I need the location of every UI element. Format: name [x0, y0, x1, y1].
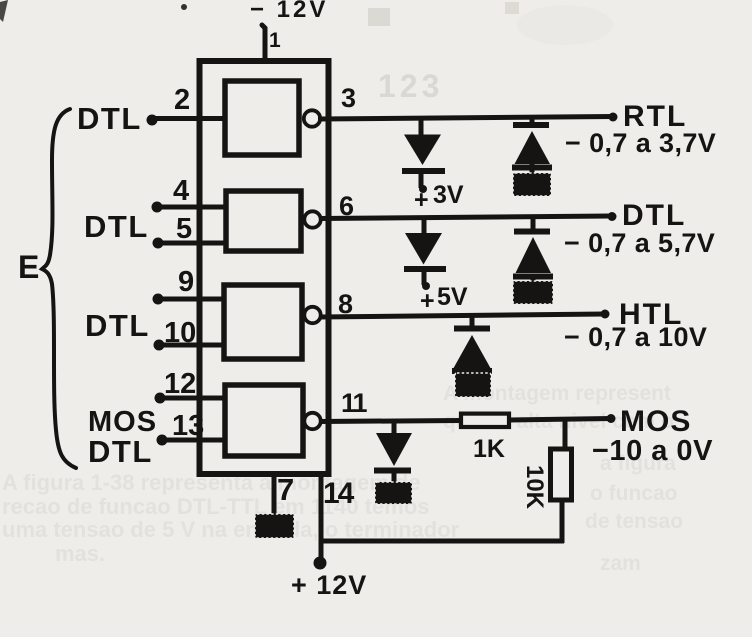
pin 4 input dot	[152, 202, 163, 213]
zener Z1 wire stub	[530, 118, 535, 127]
svg-text:− 0,7 a 3,7V: − 0,7 a 3,7V	[565, 128, 716, 158]
wire 10K bottom	[560, 500, 565, 543]
gate 4	[225, 385, 303, 456]
resistor R1 1K	[461, 414, 509, 427]
svg-text:DTL: DTL	[84, 209, 149, 244]
wire 10K top	[563, 420, 568, 451]
gate 4 output bubble	[304, 413, 320, 429]
pin 6 output wire (DTL line)	[319, 216, 611, 219]
svg-text:+: +	[420, 287, 435, 315]
diode D2 (to +5V)	[405, 233, 442, 265]
pin 11 output wire (MOS line left)	[319, 421, 461, 422]
svg-text:10K: 10K	[521, 465, 548, 510]
svg-text:o funcao: o funcao	[590, 482, 678, 505]
svg-text:7: 7	[277, 472, 294, 507]
zener Z1 (to ground)	[513, 122, 549, 128]
svg-text:5: 5	[176, 213, 192, 245]
gate 2	[226, 191, 301, 251]
pin 10 wire	[159, 343, 226, 348]
pin 12 input dot	[155, 393, 166, 404]
zener Z2 (to ground)	[514, 229, 550, 235]
pin 1 wire	[262, 25, 265, 58]
gate 1 output bubble	[304, 110, 320, 126]
svg-text:123: 123	[378, 68, 443, 104]
wire +12V rail	[319, 539, 564, 544]
svg-text:2: 2	[174, 84, 190, 116]
gate 3 output bubble	[304, 307, 320, 323]
node dot +12V	[314, 557, 327, 570]
svg-text:zam: zam	[600, 552, 641, 575]
pin 7 wire	[272, 474, 277, 514]
svg-text:3V: 3V	[433, 181, 464, 209]
svg-text:5V: 5V	[437, 283, 468, 311]
node dot RTL	[609, 113, 618, 122]
pin 13 input dot	[157, 435, 168, 446]
zener Z3 (to ground)	[454, 326, 490, 332]
svg-text:DTL: DTL	[88, 434, 153, 469]
svg-text:E: E	[18, 249, 39, 285]
ground (diode D3)	[375, 482, 412, 504]
zener Z3 wire stub	[470, 315, 475, 328]
brace E	[42, 109, 76, 468]
gate 2 output bubble	[304, 211, 320, 227]
pin 10 input dot	[154, 340, 165, 351]
node dot +3V	[419, 185, 427, 193]
node dot MOS	[607, 414, 616, 423]
diode D3 (to ground)	[376, 433, 412, 466]
diode D3 wire stub	[392, 420, 397, 434]
diode D1 (to +3V)	[404, 135, 441, 166]
svg-text:DTL: DTL	[77, 101, 142, 136]
diode D2 wire stub	[422, 218, 427, 235]
gate 1	[225, 81, 299, 155]
wire MOS line right	[509, 419, 611, 421]
svg-text:1: 1	[269, 29, 281, 52]
svg-text:3: 3	[341, 83, 356, 113]
svg-text:8: 8	[338, 289, 353, 319]
gate 3	[224, 285, 302, 359]
pin 2 input dot	[147, 115, 158, 126]
svg-text:uma tensao de 5 V na entrada,: uma tensao de 5 V na entrada, o terminad…	[2, 517, 460, 542]
pin 9 input dot	[153, 294, 164, 305]
svg-text:−10 a 0V: −10 a 0V	[592, 435, 713, 467]
svg-text:12: 12	[164, 368, 196, 400]
resistor R2 10K	[551, 449, 572, 500]
svg-text:− 0,7 a 10V: − 0,7 a 10V	[564, 322, 707, 352]
pin 2 wire	[152, 116, 227, 121]
svg-text:recao de funcao DTL-TTL em 114: recao de funcao DTL-TTL em 1140 temos	[2, 494, 430, 519]
node dot +5V	[422, 282, 430, 290]
svg-text:de tensao: de tensao	[585, 510, 683, 533]
pin 9 wire	[158, 297, 226, 302]
zener Z2 wire stub	[531, 218, 536, 234]
pin 14 wire	[319, 474, 324, 563]
ground (zener Z2)	[513, 281, 553, 304]
pin 3 output wire (RTL line)	[318, 117, 613, 120]
ground (zener Z3)	[455, 373, 491, 397]
node dot HTL	[601, 310, 610, 319]
pin 5 wire	[158, 241, 228, 246]
svg-text:MOS: MOS	[620, 405, 691, 438]
svg-text:4: 4	[173, 175, 189, 207]
IC U1 outline	[200, 61, 329, 474]
svg-text:10: 10	[164, 317, 196, 349]
ground (pin 7)	[255, 514, 294, 538]
svg-text:+ 12V: + 12V	[291, 570, 367, 600]
pin 4 wire	[157, 205, 228, 210]
svg-text:11: 11	[341, 388, 368, 418]
svg-text:9: 9	[178, 266, 194, 298]
node dot DTL	[608, 212, 617, 221]
svg-text:− 12V: − 12V	[250, 0, 328, 23]
pin 5 input dot	[153, 238, 164, 249]
svg-text:mas.: mas.	[55, 541, 105, 566]
svg-text:13: 13	[172, 410, 204, 442]
svg-text:− 0,7 a 5,7V: − 0,7 a 5,7V	[564, 228, 715, 258]
svg-text:14: 14	[323, 477, 355, 510]
svg-text:DTL: DTL	[85, 308, 150, 343]
ground (zener Z1)	[513, 173, 551, 196]
pin 8 output wire (HTL line)	[319, 314, 605, 317]
pin 13 wire	[162, 438, 227, 443]
svg-text:+: +	[414, 186, 429, 214]
diode D1 wire stub	[419, 118, 424, 137]
svg-text:1K: 1K	[473, 435, 505, 463]
pin 12 wire	[160, 396, 227, 401]
svg-text:6: 6	[339, 191, 354, 221]
